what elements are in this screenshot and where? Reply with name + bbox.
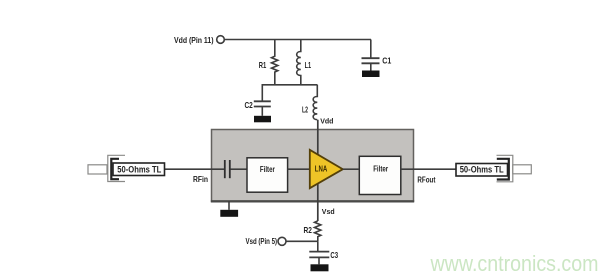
svg-text:50-Ohms TL: 50-Ohms TL [117,164,161,174]
svg-text:C2: C2 [245,100,254,110]
svg-text:RFout: RFout [417,175,435,185]
svg-text:Vsd: Vsd [322,209,335,216]
svg-text:LNA: LNA [315,164,328,173]
svg-text:Vdd: Vdd [320,119,333,126]
svg-text:Vdd (Pin 11): Vdd (Pin 11) [174,35,214,45]
svg-text:R2: R2 [304,225,313,235]
svg-text:C3: C3 [330,250,338,260]
svg-text:RFin: RFin [193,174,208,184]
svg-text:Vsd (Pin 5): Vsd (Pin 5) [246,236,278,246]
svg-text:Filter: Filter [373,163,388,173]
svg-text:C1: C1 [382,56,391,66]
svg-text:50-Ohms TL: 50-Ohms TL [460,165,504,175]
svg-text:www.cntronics.com: www.cntronics.com [430,251,599,276]
svg-text:L2: L2 [302,105,308,115]
svg-text:Filter: Filter [260,164,275,174]
svg-text:R1: R1 [259,60,267,70]
svg-text:L1: L1 [305,60,312,70]
